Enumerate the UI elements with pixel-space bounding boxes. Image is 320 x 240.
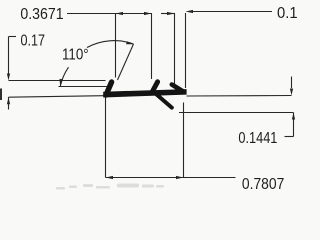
witness line L1 (9, 80, 106, 82)
arrow left end of dim 0.3671 (116, 12, 124, 15)
extension line x=115.5 (115, 13, 117, 78)
edge blob on left border (0, 89, 2, 101)
0.7807 dimension line (106, 177, 236, 179)
extension line x=174.5 (174, 13, 176, 85)
arrow right end of dim 0.3671 (144, 12, 152, 15)
leader from 0.1 (193, 11, 272, 13)
leg fin (156, 94, 172, 108)
0.17 lower arrow shaft (8, 97, 10, 109)
arrow right at W2 on 0.7807 dim (176, 176, 184, 179)
svg-text:0.1441: 0.1441 (238, 130, 277, 147)
extension line x=185.5 (185, 13, 187, 88)
arrow down at L3 for 0.1441 (290, 89, 293, 96)
leader from 0.3671 (67, 13, 116, 15)
outside arrow pointing right at x=174.5 (167, 12, 175, 15)
extension line x=151.5 (151, 13, 153, 79)
0.17 bracket vertical (8, 37, 10, 75)
svg-text:0.3671: 0.3671 (20, 6, 63, 23)
0.17 bracket top tick (9, 36, 17, 38)
arc end arrow at slant leg (126, 41, 134, 44)
outside arrow pointing left at x=185.5 (186, 10, 194, 13)
profile: black extrusion cross-section (103, 82, 186, 108)
dimension line 0.3671 (116, 13, 152, 15)
angle arc lower segment (60, 67, 68, 86)
base line L3 right part (187, 95, 292, 98)
scan noise smudges (56, 184, 164, 190)
outside arrow shaft for 0.1 left (161, 13, 175, 15)
arc end arrow lower-left (60, 79, 63, 87)
0.1441 upper arrow shaft V1 (291, 77, 293, 89)
0.7807 witness W1 (105, 98, 107, 178)
svg-text:0.17: 0.17 (21, 33, 46, 50)
0.7807 witness W2 (183, 103, 185, 178)
svg-text:0.1: 0.1 (277, 5, 298, 22)
arrow up at L4 for 0.1441 (292, 113, 295, 120)
arrowhead up at L3 for 0.17 (7, 97, 10, 104)
0.1441 bottom witness L4 (179, 112, 294, 114)
angle arc upper segment (87, 41, 134, 48)
hook diagonal (172, 85, 183, 92)
angle horizontal leg L2 (59, 86, 109, 88)
arrow left at W1 on 0.7807 dim (106, 176, 114, 179)
dimensioned extrusion profile drawing (0, 0, 305, 195)
middle tick (152, 82, 157, 92)
svg-text:110°: 110° (62, 47, 89, 64)
arrowhead down at 0.17 bracket corner (7, 74, 10, 81)
svg-text:0.7807: 0.7807 (242, 176, 284, 193)
bar (103, 89, 186, 97)
left tick (106, 82, 112, 95)
angle slant leg line (118, 44, 134, 80)
0.1441 bracket tick (285, 136, 294, 138)
base line L3 left part (9, 96, 105, 98)
0.1441 bracket vertical (293, 113, 295, 137)
